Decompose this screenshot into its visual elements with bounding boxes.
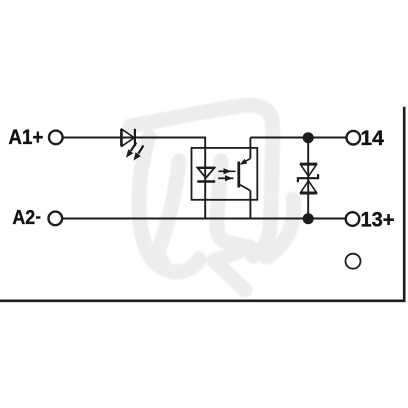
wire: phototransistor collector-emitter vertical (top part) — [249, 138, 251, 159]
LED anode bar — [120, 129, 122, 146]
TVS lower triangle — [301, 181, 317, 193]
wire: top right segment to terminal 14 — [250, 137, 346, 139]
wire: A1+ top wire — [63, 137, 205, 139]
wire: left vertical through opto LED — [204, 138, 207, 219]
TVS middle zener bar — [298, 174, 318, 182]
TVS upper triangle — [301, 165, 317, 177]
svg-text:A1+: A1+ — [8, 125, 43, 149]
collector line (bottom) — [240, 185, 250, 191]
TVS top bar — [300, 163, 317, 165]
emitter line (top) with arrow into base — [242, 159, 251, 164]
LED emission arrow 2 — [133, 145, 143, 160]
TVS suppressor diode (bidirectional) — [298, 164, 318, 194]
terminal 14 circle — [347, 131, 361, 145]
wire: TVS branch vertical — [307, 138, 309, 219]
LED triangle — [122, 129, 134, 146]
base bar — [237, 162, 240, 188]
wire: phototransistor vertical (bottom part) — [249, 191, 251, 219]
bottom frame border — [0, 299, 406, 302]
svg-text:13+: 13+ — [361, 208, 395, 231]
junction node bottom (to 13+) — [303, 213, 314, 224]
terminal A1+ circle — [49, 131, 63, 145]
svg-text:A2: A2 — [12, 206, 35, 229]
TVS bottom bar — [300, 192, 317, 194]
phototransistor Q1 (inside U1) — [239, 159, 251, 191]
right frame border — [403, 107, 406, 301]
watermark logo (light gray) — [130, 105, 294, 290]
opto LED (inside U1) — [197, 168, 215, 182]
svg-text:14: 14 — [360, 126, 384, 150]
junction node top (to 14) — [303, 132, 314, 143]
minus of A2 — [36, 216, 41, 218]
opto LED cathode bar — [197, 180, 215, 183]
terminal A2 circle — [49, 212, 63, 226]
opto LED triangle — [198, 168, 215, 178]
optocoupler U1 box — [192, 148, 258, 200]
unlabeled terminal circle bottom right — [346, 254, 361, 269]
LED cathode bar — [134, 129, 136, 146]
light coupling arrow 1 — [219, 168, 236, 174]
opto LED anode bar (triangle base, thick) — [197, 167, 215, 169]
wire: A2 bottom wire — [62, 218, 345, 220]
LED emission arrow 1 — [126, 142, 136, 157]
terminal 13+ circle — [346, 212, 360, 226]
light coupling arrow 2 — [218, 175, 233, 181]
LED indicator D1 on A1 wire — [121, 129, 143, 161]
